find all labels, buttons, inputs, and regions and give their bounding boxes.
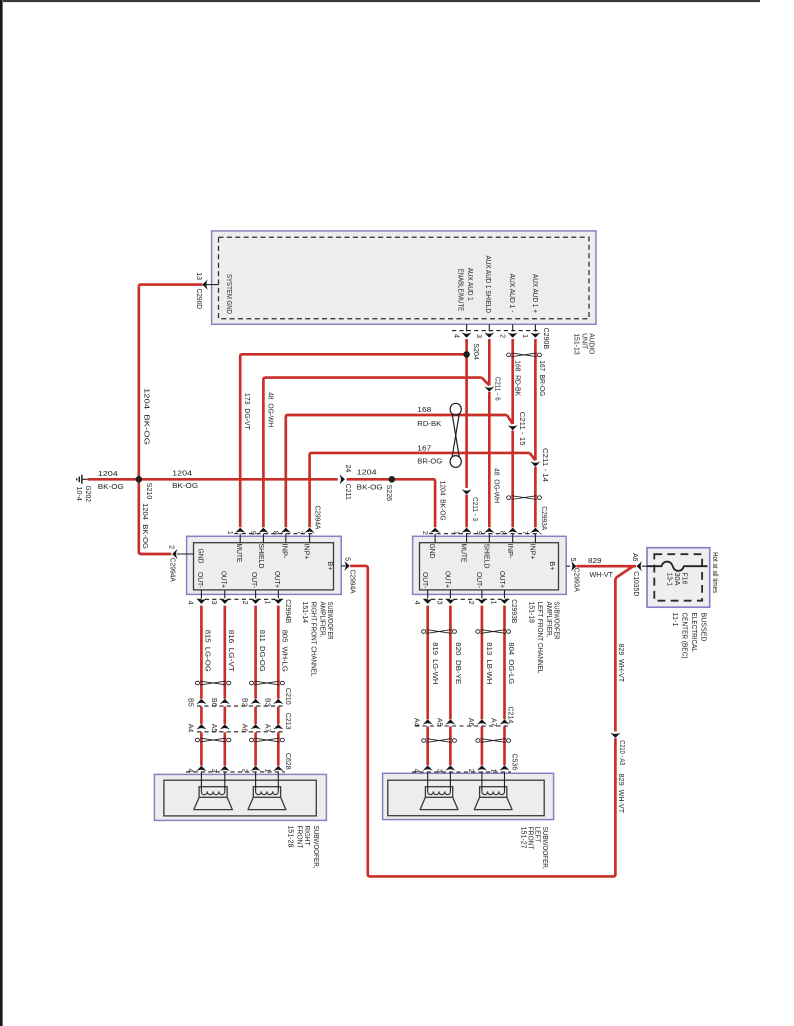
svg-text:819 LG-WH: 819 LG-WH (431, 642, 438, 684)
svg-text:AUX AUD 1: AUX AUD 1 (466, 268, 473, 301)
inline connector C210 row (197, 705, 284, 707)
svg-text:2: 2 (499, 334, 506, 338)
svg-text:813 LB-WH: 813 LB-WH (485, 642, 492, 684)
svg-text:C213: C213 (284, 713, 291, 730)
svg-text:2: 2 (168, 545, 175, 549)
svg-text:OUT+: OUT+ (273, 571, 282, 588)
connector arrow C211-6 (484, 386, 494, 391)
svg-text:OUT-: OUT- (475, 572, 484, 588)
svg-text:1: 1 (490, 601, 497, 605)
svg-text:4: 4 (187, 601, 194, 605)
wire inp+ net 167 BR-OG (534, 339, 537, 460)
svg-text:1: 1 (452, 531, 459, 535)
vertical twisted pair loop (450, 403, 461, 467)
svg-text:9: 9 (249, 531, 256, 535)
svg-text:SHIELD: SHIELD (257, 544, 266, 569)
inline connector C536 row (412, 771, 511, 773)
svg-text:3: 3 (475, 334, 482, 338)
svg-text:SYSTEM GND: SYSTEM GND (225, 274, 232, 314)
svg-text:AUX AUD 1 -: AUX AUD 1 - (508, 274, 515, 314)
svg-text:OUT-: OUT- (421, 572, 430, 588)
svg-text:INP-: INP- (506, 544, 515, 560)
svg-text:48 OG-WH: 48 OG-WH (492, 468, 499, 503)
svg-text:3: 3 (210, 601, 217, 605)
left amp B+ pin 5 C2994A (344, 561, 349, 571)
splice S210 (136, 476, 143, 483)
svg-text:151-27: 151-27 (519, 827, 528, 849)
connector arrow C210-A3 (610, 733, 620, 738)
svg-text:2: 2 (421, 531, 428, 535)
svg-text:C536: C536 (511, 754, 518, 771)
connector arrow C211 24 (340, 474, 345, 484)
subwoofer amplifier right front channel box (187, 536, 342, 594)
svg-text:1204 BK-OG: 1204 BK-OG (142, 388, 149, 445)
svg-text:A4: A4 (413, 718, 420, 727)
svg-text:S210: S210 (145, 483, 152, 500)
svg-text:1: 1 (263, 768, 270, 772)
svg-text:5: 5 (344, 557, 351, 561)
svg-text:151-18: 151-18 (528, 602, 537, 624)
svg-text:WH-VT: WH-VT (590, 570, 614, 579)
svg-text:B+: B+ (548, 561, 557, 570)
svg-text:4: 4 (452, 334, 459, 338)
svg-text:C2994A: C2994A (169, 558, 176, 582)
svg-text:4: 4 (413, 769, 420, 773)
svg-text:ENABLE/MUTE: ENABLE/MUTE (457, 269, 464, 312)
connector arrow C211-3 (462, 489, 472, 494)
svg-text:BK-OG: BK-OG (172, 481, 198, 490)
svg-text:151-28: 151-28 (287, 826, 296, 848)
svg-text:168 RD-BK: 168 RD-BK (514, 360, 521, 396)
svg-text:1: 1 (490, 769, 497, 773)
twisted pair symbols left harness (195, 681, 231, 685)
svg-text:811 DG-OG: 811 DG-OG (258, 630, 265, 672)
svg-text:C290B: C290B (542, 328, 549, 350)
svg-text:829: 829 (588, 556, 602, 565)
svg-text:OUT+: OUT+ (444, 571, 453, 588)
speaker left of right-front subwoofer (199, 787, 227, 798)
svg-text:A6: A6 (631, 553, 638, 562)
svg-text:C210 - A3: C210 - A3 (618, 740, 625, 765)
speaker left of left-front subwoofer (425, 787, 452, 798)
svg-text:GND: GND (197, 549, 206, 564)
svg-text:1: 1 (264, 601, 271, 605)
svg-text:30A: 30A (673, 573, 680, 586)
splice S204 (463, 351, 470, 358)
inline connector C628 row (186, 771, 285, 773)
svg-text:BK-OG: BK-OG (357, 482, 383, 491)
svg-text:MUTE: MUTE (460, 544, 469, 563)
svg-text:151-14: 151-14 (301, 602, 310, 624)
wire enable/mute net 173 DG-VT (465, 339, 468, 488)
svg-text:167 BR-OG: 167 BR-OG (538, 360, 545, 396)
svg-text:10-4: 10-4 (75, 486, 82, 501)
svg-text:B3: B3 (263, 698, 270, 707)
svg-text:BUSSED: BUSSED (699, 613, 708, 642)
right amp output wires (426, 606, 429, 720)
svg-text:829 WH-VT: 829 WH-VT (617, 644, 624, 683)
svg-text:1204: 1204 (172, 469, 192, 478)
fuse F16 30A (647, 562, 708, 571)
svg-text:C211 - 15: C211 - 15 (518, 412, 525, 446)
inline connector C213 row (197, 731, 284, 733)
wire B+ 829 WH-VT (576, 565, 636, 568)
svg-text:B5: B5 (186, 698, 193, 707)
svg-text:A6: A6 (241, 724, 248, 733)
subwoofer right front box (154, 774, 326, 820)
svg-text:B2: B2 (241, 698, 248, 707)
svg-text:OUT+: OUT+ (498, 571, 507, 588)
svg-text:AMPLIFIER,: AMPLIFIER, (318, 602, 327, 638)
svg-text:C290D: C290D (195, 289, 202, 310)
audio unit pin 13 C290D (203, 284, 219, 286)
svg-text:A5: A5 (435, 718, 442, 727)
svg-text:C211: C211 (344, 484, 351, 500)
speaker right of right-front subwoofer (253, 787, 280, 798)
svg-text:C2994A: C2994A (349, 570, 356, 594)
svg-text:C211 - 3: C211 - 3 (471, 497, 478, 521)
svg-text:3: 3 (435, 769, 442, 773)
svg-text:A4: A4 (186, 724, 193, 733)
subwoofer left front box (383, 773, 554, 819)
svg-text:805 WH-LG: 805 WH-LG (281, 630, 288, 672)
svg-text:AUX AUD 1 SHIELD: AUX AUD 1 SHIELD (484, 256, 491, 314)
svg-text:C2993B: C2993B (510, 599, 517, 623)
left amp output wires (200, 606, 203, 699)
svg-text:820 DB-YE: 820 DB-YE (454, 642, 461, 684)
svg-text:11-1: 11-1 (671, 613, 680, 627)
svg-text:2: 2 (241, 768, 248, 772)
svg-text:GND: GND (428, 544, 437, 559)
bussed electrical center box (647, 548, 710, 608)
svg-text:INP-: INP- (280, 544, 289, 560)
svg-text:FRONT: FRONT (295, 826, 304, 850)
svg-text:F16: F16 (681, 573, 688, 585)
twisted pair symbol above C2993A (507, 496, 542, 500)
svg-text:815 LG-OG: 815 LG-OG (204, 630, 211, 672)
svg-text:2: 2 (467, 601, 474, 605)
svg-text:5: 5 (569, 558, 576, 562)
svg-text:C1035D: C1035D (632, 571, 639, 596)
svg-text:1: 1 (521, 334, 528, 338)
svg-text:BK-OG: BK-OG (98, 482, 124, 491)
svg-text:SHIELD: SHIELD (482, 544, 491, 569)
audio unit connector C290B pins 4,3,2,1 (452, 330, 540, 332)
page border top (3, 0, 760, 2)
svg-text:A7: A7 (263, 724, 270, 733)
splice S226 (389, 476, 396, 483)
speaker right of left-front subwoofer (480, 787, 507, 798)
twisted pair symbols right harness (422, 630, 457, 634)
svg-text:S204: S204 (472, 343, 479, 360)
right amp B+ pin 5 C2993A (571, 561, 576, 571)
svg-text:4: 4 (186, 768, 193, 772)
svg-text:8: 8 (498, 531, 505, 535)
svg-text:INP+: INP+ (529, 544, 538, 560)
svg-text:24: 24 (344, 465, 351, 473)
svg-text:B+: B+ (326, 561, 335, 570)
svg-text:9: 9 (475, 531, 482, 535)
svg-text:A5: A5 (210, 724, 217, 733)
svg-text:1: 1 (226, 531, 233, 535)
svg-text:816 LG-VT: 816 LG-VT (227, 630, 234, 673)
svg-text:168: 168 (417, 405, 431, 414)
svg-text:7: 7 (295, 531, 302, 535)
twisted pair symbol at C290B (507, 353, 542, 357)
svg-text:1204: 1204 (357, 468, 377, 477)
svg-text:Hot at all times: Hot at all times (711, 552, 718, 593)
svg-text:B6: B6 (210, 698, 217, 707)
svg-text:1204 BK-OG: 1204 BK-OG (439, 481, 446, 521)
svg-text:BR-OG: BR-OG (417, 456, 442, 465)
svg-text:C211 - 6: C211 - 6 (494, 377, 501, 401)
ground symbol G202 (82, 478, 88, 480)
svg-text:RD-BK: RD-BK (417, 419, 441, 428)
svg-text:4: 4 (413, 601, 420, 605)
svg-text:1204 BK-OG: 1204 BK-OG (141, 503, 148, 549)
svg-text:13: 13 (195, 272, 202, 280)
svg-text:C2993A: C2993A (573, 568, 580, 592)
svg-text:C214: C214 (506, 707, 513, 724)
svg-text:MUTE: MUTE (235, 544, 244, 563)
svg-text:INP+: INP+ (303, 544, 312, 560)
audio unit box (212, 231, 596, 324)
svg-text:OUT-: OUT- (196, 572, 205, 588)
svg-text:AMPLIFIER,: AMPLIFIER, (545, 602, 554, 638)
page border left (0, 0, 3, 1026)
svg-text:SUBWOOFER,: SUBWOOFER, (312, 826, 321, 869)
svg-text:3: 3 (210, 768, 217, 772)
connector arrow C211-14 (530, 461, 540, 466)
svg-text:C2993A: C2993A (540, 506, 547, 530)
svg-text:C628: C628 (284, 753, 291, 770)
left amp GND pin 2 C2994A (177, 553, 194, 555)
svg-text:48 OG-WH: 48 OG-WH (267, 392, 274, 427)
svg-text:A7: A7 (490, 718, 497, 727)
svg-text:8: 8 (272, 531, 279, 535)
svg-text:804 OG-LG: 804 OG-LG (507, 642, 514, 684)
svg-text:OUT+: OUT+ (219, 571, 228, 588)
svg-text:CENTER (BEC): CENTER (BEC) (681, 613, 690, 659)
svg-text:173 DG-VT: 173 DG-VT (243, 393, 250, 431)
svg-text:S226: S226 (385, 485, 392, 502)
svg-text:13-1: 13-1 (666, 573, 673, 587)
inline connector C214 row (415, 725, 511, 727)
subwoofer amplifier left front channel box (413, 536, 567, 594)
svg-text:829 WH-VT: 829 WH-VT (617, 774, 624, 814)
svg-text:151-13: 151-13 (572, 333, 581, 355)
svg-text:ELECTRICAL: ELECTRICAL (690, 613, 699, 653)
svg-text:2: 2 (467, 769, 474, 773)
BEC pin A6 C1035D (642, 565, 647, 567)
svg-text:C211 - 14: C211 - 14 (541, 448, 548, 482)
svg-text:7: 7 (521, 531, 528, 535)
svg-text:3: 3 (436, 601, 443, 605)
svg-text:2: 2 (241, 601, 248, 605)
svg-text:G202: G202 (84, 486, 91, 503)
svg-text:OUT-: OUT- (250, 572, 259, 588)
svg-text:1204: 1204 (98, 469, 118, 478)
wire shield net 48 OG-WH (488, 339, 491, 385)
wire inp- net 168 RD-BK (511, 339, 514, 424)
svg-text:A6: A6 (467, 718, 474, 727)
svg-text:C210: C210 (284, 688, 291, 705)
ground bus 1204 BK-OG (88, 478, 338, 481)
svg-text:167: 167 (417, 443, 431, 452)
connector arrow C211-15 (508, 425, 518, 430)
svg-text:AUX AUD 1 +: AUX AUD 1 + (531, 274, 538, 313)
svg-text:C2994A: C2994A (314, 506, 321, 530)
svg-text:C2994B: C2994B (284, 599, 291, 623)
